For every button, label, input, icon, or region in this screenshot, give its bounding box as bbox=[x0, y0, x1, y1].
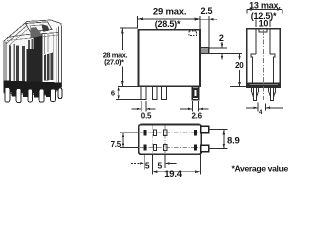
svg-text:0.5: 0.5 bbox=[141, 112, 152, 121]
svg-text:8.9: 8.9 bbox=[227, 136, 240, 147]
bottom view pin a2 bbox=[143, 144, 146, 150]
bottom view tab top bbox=[201, 126, 209, 133]
dimension 5 first bbox=[131, 154, 150, 170]
bottom view pin b1 bbox=[154, 130, 157, 136]
dimension 2 tab thickness bbox=[209, 33, 242, 60]
svg-text:19.4: 19.4 bbox=[164, 169, 183, 180]
bottom view pin c2 bbox=[164, 144, 167, 150]
svg-text:2.5: 2.5 bbox=[200, 6, 212, 16]
front view latch dashed box bbox=[189, 31, 197, 36]
front view side tab bbox=[200, 48, 208, 54]
front view pin 3 bbox=[162, 87, 167, 100]
front view pin 1 bbox=[141, 87, 146, 100]
svg-text:*Average value: *Average value bbox=[232, 163, 289, 173]
bottom view row centerline top bbox=[140, 132, 200, 134]
dimension (12.5) side bbox=[251, 11, 277, 21]
bottom view pin b2 bbox=[154, 144, 157, 150]
dimension 8.9 bottom view right bbox=[209, 130, 240, 149]
dimension 19.4 bbox=[152, 154, 200, 180]
dimension 0.5 pin thickness bbox=[132, 101, 156, 121]
front view case bbox=[139, 30, 200, 87]
bottom view pin a1 bbox=[143, 130, 146, 136]
dimension 6 pin length bbox=[111, 86, 141, 99]
dimension 2.6 pin width bbox=[180, 101, 209, 121]
dimension 13 max side top bbox=[247, 0, 282, 13]
svg-text:(28.5)*: (28.5)* bbox=[155, 19, 181, 29]
svg-text:2: 2 bbox=[219, 33, 224, 43]
dimension 4 side pin gap bbox=[246, 103, 283, 117]
svg-text:10: 10 bbox=[259, 18, 269, 28]
front view pin 2 bbox=[152, 87, 157, 100]
dimension 2.5 tab protrusion bbox=[194, 6, 217, 48]
dimension 10 side bbox=[256, 18, 270, 28]
bottom view column centerline A bbox=[151, 126, 153, 154]
side view pin left bbox=[252, 88, 259, 101]
dimension 29 max top bbox=[138, 7, 200, 29]
svg-text:2.6: 2.6 bbox=[191, 112, 202, 121]
svg-text:13 max.: 13 max. bbox=[249, 0, 281, 10]
svg-text:20: 20 bbox=[235, 61, 244, 70]
bottom view pin c1 bbox=[164, 130, 167, 136]
side view centerline bbox=[263, 30, 265, 100]
dimension 5 second bbox=[152, 154, 176, 174]
bottom view row centerline bottom bbox=[140, 147, 200, 149]
front view pin 4 with slot bbox=[192, 87, 198, 100]
relay 3D illustration bbox=[4, 20, 62, 103]
svg-text:29 max.: 29 max. bbox=[153, 7, 186, 18]
bottom view pin d1 bbox=[194, 130, 197, 136]
side view case bbox=[247, 29, 280, 88]
side view pin right bbox=[269, 88, 276, 101]
bottom view tab bottom bbox=[201, 145, 209, 152]
bottom view pin d2 bbox=[194, 144, 197, 150]
dimension 28 max left bbox=[103, 28, 139, 86]
svg-text:(27.0)*: (27.0)* bbox=[104, 58, 124, 67]
dimension 7.5 bottom view left bbox=[111, 133, 139, 150]
svg-text:5: 5 bbox=[158, 161, 163, 171]
dimension 20 case height bbox=[230, 53, 248, 86]
svg-text:6: 6 bbox=[111, 89, 115, 98]
bottom view column centerline B bbox=[164, 126, 166, 154]
bottom view body bbox=[139, 125, 202, 155]
svg-text:5: 5 bbox=[145, 161, 150, 171]
